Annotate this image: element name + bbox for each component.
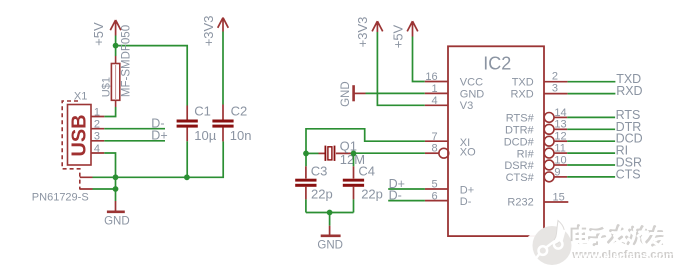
svg-text:6: 6 <box>431 190 437 202</box>
connector X1 USB box <box>68 105 92 166</box>
wire shield1 to junction <box>93 176 116 178</box>
junction C1 bottom <box>184 174 190 180</box>
ground symbol USB <box>107 201 125 212</box>
svg-text:13: 13 <box>554 119 566 131</box>
svg-text:22p: 22p <box>311 187 333 202</box>
wire +3V3 to C2 <box>222 32 224 105</box>
svg-text:IC2: IC2 <box>483 54 511 74</box>
capacitor C4 <box>343 166 364 199</box>
pin 6 D- <box>425 190 472 208</box>
pin 11 RI# <box>517 143 568 161</box>
svg-text:D-: D- <box>389 189 402 203</box>
svg-text:3: 3 <box>552 83 558 95</box>
pin 3 RXD <box>510 83 567 101</box>
wire GND to pin1 <box>366 92 425 94</box>
supply +5V left <box>110 20 121 36</box>
wire D- net <box>104 128 165 130</box>
wire CTS net <box>567 176 615 178</box>
wire C4 bottom <box>353 199 355 212</box>
wire D+ net right <box>388 188 425 190</box>
svg-text:15: 15 <box>553 191 565 203</box>
svg-text:4: 4 <box>431 95 437 107</box>
svg-text:CTS: CTS <box>616 167 641 181</box>
wire crystal left to Q1 <box>306 152 319 154</box>
svg-text:C1: C1 <box>194 103 211 118</box>
svg-text:1: 1 <box>94 106 100 118</box>
wire C3 bottom <box>305 199 307 212</box>
pin 1 GND <box>425 83 485 100</box>
pin 15 R232 <box>507 191 568 208</box>
wire junction1 to junction2 to gnd <box>115 177 117 201</box>
pin 7 XI <box>425 131 470 149</box>
svg-text:D+: D+ <box>151 129 167 143</box>
svg-text:7: 7 <box>431 131 437 143</box>
junction crystal right <box>351 151 357 157</box>
svg-text:D+: D+ <box>460 184 474 196</box>
pin 8 XO with circle <box>425 142 476 158</box>
wire RXD net <box>568 93 616 95</box>
svg-text:12: 12 <box>554 131 566 143</box>
svg-text:5: 5 <box>431 179 437 191</box>
svg-text:10µ: 10µ <box>194 128 216 143</box>
wire +5V to pin16 <box>413 37 425 82</box>
pin 4 V3 <box>425 95 474 112</box>
svg-text:GND: GND <box>104 216 130 228</box>
wire pin4 down to gnd rail <box>104 153 115 177</box>
svg-text:RI#: RI# <box>517 148 535 160</box>
svg-text:RXD: RXD <box>616 84 642 98</box>
junction crystal left <box>303 151 309 157</box>
wire +3V3 to pin4 <box>377 32 424 105</box>
wire top rail junction to C1 <box>116 46 188 106</box>
svg-text:+5V: +5V <box>390 24 405 48</box>
svg-text:RXD: RXD <box>510 88 533 100</box>
wire TXD net <box>568 81 616 83</box>
svg-text:3: 3 <box>94 131 100 143</box>
svg-text:DSR#: DSR# <box>504 160 534 172</box>
svg-text:D-: D- <box>460 196 472 208</box>
svg-text:TXD: TXD <box>512 76 534 88</box>
supply +5V right <box>407 21 418 36</box>
wire RTS net <box>567 116 615 118</box>
svg-text:GND: GND <box>460 88 485 100</box>
pin 5 D+ <box>425 179 474 197</box>
connector shield dashed outline <box>62 101 80 190</box>
supply +3V3 left <box>218 18 229 32</box>
junction top +5V <box>113 43 119 49</box>
capacitor C1 <box>177 106 198 142</box>
wire XO to pin8 <box>354 152 425 154</box>
wire DTR net <box>567 128 615 130</box>
pin 12 DCD# <box>504 131 567 149</box>
svg-text:V3: V3 <box>460 100 473 112</box>
connector pin stubs 1-4 <box>91 117 104 154</box>
svg-text:22p: 22p <box>361 187 383 202</box>
svg-text:11: 11 <box>554 143 565 155</box>
svg-text:2: 2 <box>552 71 558 83</box>
svg-text:DTR#: DTR# <box>505 125 535 137</box>
svg-text:C3: C3 <box>311 164 328 179</box>
wire DSR net <box>567 164 615 166</box>
wire RI net <box>567 152 615 154</box>
wire gnd rail left <box>116 141 224 177</box>
wire DCD net <box>567 140 615 142</box>
svg-text:4: 4 <box>94 143 100 155</box>
svg-text:C2: C2 <box>231 103 248 118</box>
wire fuse to USB pin1 <box>104 107 115 117</box>
svg-text:10n: 10n <box>230 128 252 143</box>
svg-text:2: 2 <box>94 119 100 131</box>
svg-text:8: 8 <box>431 142 437 154</box>
wire D- net right <box>388 200 425 202</box>
wire junction to gnd symbol <box>329 213 331 226</box>
svg-text:DCD#: DCD# <box>504 136 535 148</box>
ground symbol left of IC <box>354 85 366 101</box>
wire C4 top <box>353 153 355 166</box>
junction shield2 <box>113 186 119 192</box>
wire D+ net <box>104 140 165 142</box>
svg-text:MF-SMDF050: MF-SMDF050 <box>121 25 133 97</box>
svg-text:9: 9 <box>554 166 560 178</box>
watermark logo elecfans <box>521 219 571 272</box>
pin 10 DSR# <box>504 154 567 172</box>
wire C1 bottom <box>186 141 188 177</box>
junction shield1 <box>113 174 119 180</box>
junction gnd crystal <box>327 210 333 216</box>
pin 2 TXD <box>512 71 568 89</box>
svg-text:U$1: U$1 <box>100 77 112 97</box>
svg-text:+3V3: +3V3 <box>201 16 216 47</box>
svg-text:16: 16 <box>425 71 437 83</box>
watermark chinese text <box>572 226 662 246</box>
pin 16 VCC <box>425 71 483 88</box>
svg-text:+3V3: +3V3 <box>355 17 370 48</box>
pin numbers 1-4 <box>94 106 100 155</box>
pin 14 RTS# <box>506 107 567 125</box>
capacitor C2 <box>212 105 233 142</box>
pin 13 DTR# <box>505 119 567 137</box>
svg-text:GND: GND <box>340 81 352 107</box>
svg-text:10: 10 <box>554 154 566 166</box>
svg-text:XO: XO <box>460 147 476 159</box>
svg-text:VCC: VCC <box>460 76 483 88</box>
svg-text:R232: R232 <box>507 197 533 209</box>
wire XI from crystal <box>306 129 425 154</box>
wire gnd rail crystal <box>306 212 354 214</box>
svg-text:PN61729-S: PN61729-S <box>32 191 89 203</box>
svg-text:GND: GND <box>317 240 343 252</box>
capacitor C3 <box>295 166 316 199</box>
crystal Q1 <box>319 146 354 161</box>
svg-text:CTS#: CTS# <box>506 172 535 184</box>
svg-text:C4: C4 <box>358 164 375 179</box>
svg-text:+5V: +5V <box>91 22 106 46</box>
ground symbol crystal <box>321 226 341 236</box>
pin 9 CTS# <box>506 166 568 184</box>
svg-text:USB: USB <box>68 114 90 156</box>
wire +5V to junction <box>115 36 117 57</box>
wire shield2 to junction <box>93 188 116 190</box>
svg-text:14: 14 <box>554 107 566 119</box>
wire C3 top <box>305 153 307 166</box>
svg-text:RTS#: RTS# <box>506 113 535 125</box>
svg-text:1: 1 <box>431 83 437 95</box>
fuse U$1 MF-SMDF050 <box>111 56 119 107</box>
connector shield stubs <box>80 177 93 189</box>
supply +3V3 right <box>372 21 383 32</box>
IC2 box <box>448 46 544 236</box>
svg-text:www.elecfans.com: www.elecfans.com <box>573 251 676 263</box>
